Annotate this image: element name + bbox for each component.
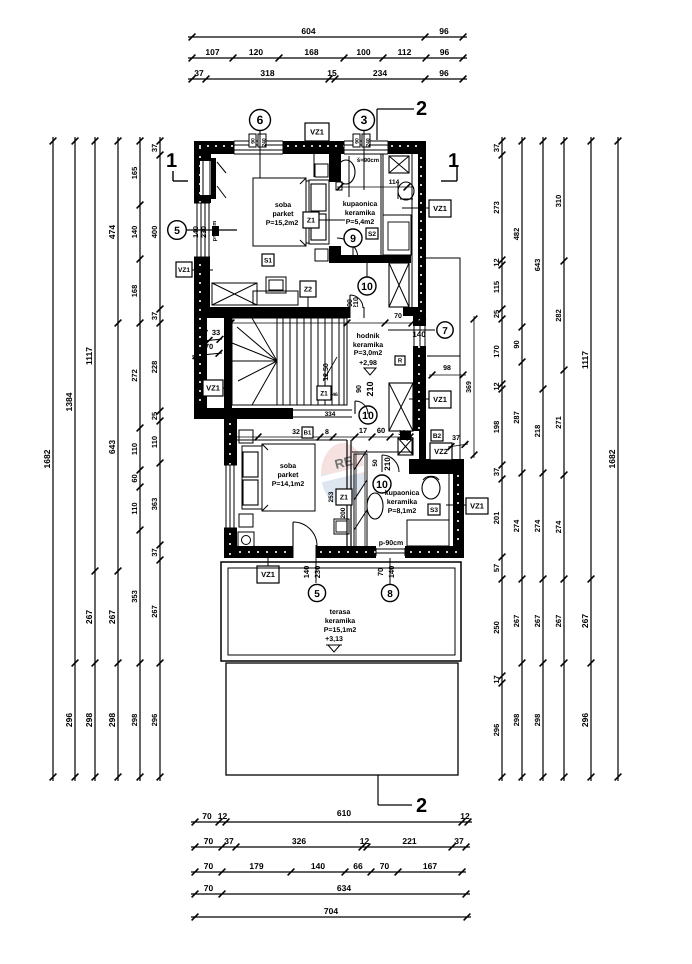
svg-text:282: 282	[554, 309, 563, 322]
top dimension row 1	[188, 36, 467, 38]
hodnik lower door arc	[354, 401, 356, 414]
right dim column 2	[521, 137, 523, 781]
watermark balloon	[320, 443, 366, 505]
label Z2	[300, 281, 316, 297]
nightstand lower a	[239, 430, 253, 443]
svg-text:228: 228	[150, 361, 159, 374]
svg-text:110: 110	[130, 443, 139, 455]
wall insulation dots	[199, 145, 201, 147]
svg-text:198: 198	[492, 421, 501, 434]
window top wall 2	[344, 141, 388, 154]
svg-text:96: 96	[439, 68, 449, 78]
svg-text:90: 90	[251, 138, 257, 144]
label Z1	[303, 212, 319, 228]
outer wall: top	[194, 141, 426, 154]
svg-text:37: 37	[150, 144, 159, 152]
outer wall: right lower block	[453, 474, 464, 546]
svg-text:25: 25	[150, 412, 159, 420]
sink lower	[367, 493, 383, 519]
level marker terrace	[328, 645, 340, 652]
wall: under upper room	[194, 307, 352, 318]
label S2	[366, 228, 378, 239]
svg-text:10: 10	[376, 479, 388, 491]
svg-text:8: 8	[325, 429, 329, 436]
right dim column 4	[563, 137, 565, 781]
circled 6	[250, 110, 271, 131]
svg-text:318: 318	[260, 68, 274, 78]
svg-text:VZ1: VZ1	[206, 384, 220, 393]
circled 5 left	[168, 221, 187, 240]
window marker w2	[353, 134, 360, 147]
svg-text:112: 112	[398, 47, 412, 57]
svg-text:643: 643	[533, 259, 542, 272]
wall: hodnik/bath corner	[419, 420, 426, 459]
svg-text:643: 643	[107, 440, 117, 454]
left dim column 5	[139, 137, 141, 781]
svg-text:120: 120	[249, 47, 263, 57]
svg-text:S2: S2	[368, 231, 376, 238]
svg-text:298: 298	[107, 713, 117, 727]
WC upper	[337, 160, 355, 184]
bed lower room	[262, 444, 315, 511]
window top wall 1	[234, 141, 283, 154]
svg-text:218: 218	[533, 425, 542, 438]
wall: under upper bathroom	[330, 255, 411, 263]
svg-text:474: 474	[107, 225, 117, 239]
svg-text:12,50: 12,50	[323, 363, 330, 381]
svg-text:50: 50	[372, 459, 379, 467]
svg-text:2: 2	[416, 98, 427, 120]
svg-text:98: 98	[443, 365, 451, 372]
dark box 36	[400, 431, 411, 440]
svg-text:298: 298	[512, 714, 521, 727]
shaft X below bathroom	[389, 263, 409, 307]
svg-text:298: 298	[533, 714, 542, 727]
svg-text:1682: 1682	[42, 449, 52, 468]
outer wall: left lower block	[224, 419, 237, 465]
label S3	[428, 504, 440, 515]
svg-text:200: 200	[340, 507, 347, 518]
svg-text:5: 5	[314, 589, 320, 600]
svg-text:P=15,1m2: P=15,1m2	[324, 627, 357, 634]
door gap bottom wall frame	[292, 546, 294, 558]
outer wall: bottom	[224, 546, 293, 558]
svg-text:VZ1: VZ1	[470, 502, 484, 511]
lower room top face	[237, 439, 347, 441]
circled 10 b	[359, 406, 377, 424]
svg-text:267: 267	[150, 605, 159, 618]
bottom dimension row 2	[191, 846, 470, 848]
svg-text:240: 240	[366, 138, 372, 147]
label R	[395, 356, 405, 365]
window marker w1	[249, 134, 256, 147]
svg-text:12: 12	[460, 811, 470, 821]
circled 8 bottom	[381, 584, 398, 601]
dim 114	[337, 186, 412, 188]
svg-text:1117: 1117	[580, 351, 590, 369]
svg-text:17: 17	[492, 675, 501, 683]
svg-text:610: 610	[337, 808, 351, 818]
svg-text:267: 267	[533, 615, 542, 628]
stair treads	[282, 318, 284, 405]
svg-text:37: 37	[194, 68, 204, 78]
svg-text:keramika: keramika	[387, 498, 417, 506]
svg-text:296: 296	[150, 714, 159, 727]
svg-text:R: R	[398, 358, 403, 365]
svg-text:37: 37	[150, 548, 159, 556]
svg-text:25: 25	[492, 310, 501, 318]
label B1	[302, 427, 313, 438]
interior dim line y437	[237, 436, 412, 438]
svg-text:179: 179	[249, 861, 263, 871]
svg-text:kupaonica: kupaonica	[343, 200, 378, 208]
svg-text:60: 60	[377, 426, 385, 435]
svg-text:12: 12	[218, 811, 228, 821]
small cabinet lower	[334, 519, 349, 534]
left dim column 6	[159, 137, 161, 781]
svg-text:46: 46	[332, 392, 338, 398]
svg-text:5: 5	[174, 225, 180, 237]
svg-text:37: 37	[492, 468, 501, 476]
svg-text:Z1: Z1	[307, 218, 315, 225]
svg-text:70: 70	[202, 811, 212, 821]
svg-text:Z1: Z1	[340, 495, 348, 502]
top dimension row 3	[188, 78, 467, 80]
nightstand lower b	[239, 514, 253, 527]
svg-text:B1: B1	[304, 430, 312, 437]
svg-text:272: 272	[130, 369, 139, 382]
bathroom door arc	[337, 258, 358, 260]
svg-text:9: 9	[350, 233, 356, 245]
svg-text:140: 140	[412, 330, 426, 339]
headboard + pillows lower	[242, 446, 262, 509]
window left wall upper	[194, 202, 210, 204]
svg-text:100: 100	[356, 47, 370, 57]
svg-text:P=8,1m2: P=8,1m2	[388, 508, 417, 515]
svg-text:57: 57	[492, 564, 501, 572]
svg-text:40: 40	[418, 315, 427, 324]
svg-text:310: 310	[554, 195, 563, 208]
circled 10 a	[358, 277, 376, 295]
nightstand bottom	[315, 249, 328, 261]
left dim column 2	[74, 137, 76, 781]
stair winders	[252, 318, 277, 361]
svg-text:15: 15	[327, 68, 337, 78]
svg-text:70: 70	[204, 861, 214, 871]
svg-text:12: 12	[492, 382, 501, 390]
svg-text:VZ1: VZ1	[310, 128, 324, 137]
svg-text:114: 114	[389, 179, 400, 186]
svg-text:37: 37	[452, 435, 460, 442]
dim 369 vertical	[473, 316, 475, 458]
bottom dimension row 1	[191, 821, 472, 823]
svg-text:37: 37	[492, 144, 501, 152]
svg-text:parket: parket	[272, 210, 294, 218]
svg-text:230: 230	[201, 226, 208, 238]
svg-text:P=14,1m2: P=14,1m2	[272, 481, 305, 488]
svg-text:1384: 1384	[64, 392, 74, 411]
left dim column 4	[117, 137, 119, 781]
svg-text:240: 240	[262, 138, 268, 147]
svg-text:369: 369	[466, 381, 473, 393]
terrace door leaf+arc	[292, 522, 294, 546]
svg-text:90: 90	[356, 385, 363, 393]
wall: lower soba/bath partition	[346, 440, 348, 546]
svg-text:P=3,0m2: P=3,0m2	[354, 350, 383, 357]
left dim column 1 (1682)	[52, 137, 54, 781]
svg-text:298: 298	[130, 714, 139, 727]
svg-text:70: 70	[394, 313, 402, 320]
svg-text:VZ1: VZ1	[178, 267, 190, 274]
outer wall: left/stairs bottom band	[194, 408, 293, 419]
svg-text:kupaonica: kupaonica	[385, 489, 420, 497]
label VZ1 right bath	[429, 200, 451, 217]
left dim column 3	[94, 137, 96, 781]
svg-text:300: 300	[286, 313, 298, 320]
right dim column 6 (1682)	[617, 137, 619, 781]
stairs inner wall left	[224, 313, 232, 408]
hodnik lower lines	[293, 409, 352, 411]
label S1	[262, 254, 274, 266]
svg-text:168: 168	[130, 285, 139, 298]
svg-text:keramika: keramika	[345, 209, 375, 217]
tub lower	[407, 520, 449, 546]
label Z1 stairs	[317, 386, 331, 400]
right dim column 1	[501, 137, 503, 781]
svg-text:107: 107	[205, 47, 219, 57]
svg-text:400: 400	[150, 226, 159, 239]
svg-text:140: 140	[193, 226, 200, 238]
svg-text:70: 70	[204, 836, 214, 846]
svg-text:B2: B2	[433, 433, 442, 440]
svg-text:210: 210	[365, 381, 375, 396]
svg-text:70: 70	[380, 861, 390, 871]
svg-text:1117: 1117	[84, 347, 94, 365]
balcony door right wall (hodnik)	[413, 326, 415, 346]
pocket door hatch	[354, 454, 367, 548]
shower upper bath	[383, 215, 411, 255]
svg-text:VZ1: VZ1	[261, 570, 275, 579]
bathroom divider line	[380, 154, 382, 255]
headboard + pillows	[309, 180, 329, 244]
svg-text:1: 1	[166, 150, 177, 172]
entrance door leaf upper-left	[211, 158, 216, 199]
svg-text:274: 274	[554, 520, 563, 533]
lower bath door arc	[381, 455, 383, 472]
svg-text:167: 167	[423, 861, 437, 871]
low cabinet	[253, 291, 298, 305]
svg-text:37: 37	[150, 312, 159, 320]
svg-text:3: 3	[361, 113, 368, 127]
dim 98 right	[429, 374, 466, 376]
svg-text:110: 110	[150, 436, 159, 448]
svg-text:S3: S3	[430, 507, 438, 514]
svg-text:267: 267	[554, 615, 563, 628]
svg-text:140: 140	[130, 226, 139, 239]
svg-text:250: 250	[492, 621, 501, 634]
label VZ1 below wall	[257, 566, 279, 583]
svg-text:234: 234	[373, 68, 387, 78]
right dim column 5	[590, 137, 592, 781]
svg-text:90: 90	[512, 340, 521, 348]
svg-text:634: 634	[337, 883, 351, 893]
vent shaft X upper bath	[389, 156, 409, 173]
svg-text:soba: soba	[280, 462, 296, 470]
svg-text:+2,98: +2,98	[359, 360, 377, 367]
bottom dimension row 5	[191, 916, 471, 918]
svg-text:267: 267	[107, 610, 117, 624]
circled 9	[344, 229, 362, 247]
svg-text:p-90cm: p-90cm	[379, 540, 404, 547]
wardrobe with X	[212, 283, 257, 305]
svg-text:keramika: keramika	[353, 341, 383, 349]
svg-text:296: 296	[492, 724, 501, 737]
svg-text:soba: soba	[275, 201, 291, 209]
svg-text:267: 267	[580, 614, 590, 628]
WC lower	[422, 477, 440, 499]
svg-text:298: 298	[84, 713, 94, 727]
svg-text:170: 170	[492, 345, 501, 358]
svg-text:604: 604	[301, 26, 315, 36]
svg-text:+3,13: +3,13	[325, 636, 343, 643]
svg-text:S1: S1	[264, 257, 272, 264]
svg-text:96: 96	[439, 26, 449, 36]
svg-text:353: 353	[130, 590, 139, 603]
circled 10 c	[373, 475, 391, 493]
svg-text:110: 110	[130, 502, 139, 514]
svg-text:33: 33	[212, 328, 220, 337]
svg-text:parket: parket	[277, 471, 299, 479]
label B2 + VZ2 right	[431, 430, 443, 441]
svg-text:165: 165	[130, 167, 139, 180]
svg-text:8: 8	[387, 589, 393, 600]
svg-text:Z2: Z2	[304, 287, 312, 294]
svg-text:7: 7	[442, 326, 448, 337]
label VZ1 left upper	[176, 262, 192, 277]
svg-text:363: 363	[150, 498, 159, 511]
bottom dimension row 4	[191, 893, 470, 895]
level marker hodnik	[364, 368, 376, 375]
label VZ1 top	[305, 123, 329, 141]
stairs outline	[232, 318, 347, 405]
svg-text:267: 267	[512, 615, 521, 628]
svg-text:221: 221	[402, 836, 416, 846]
bed upper room	[253, 178, 306, 246]
nightstand top	[315, 164, 328, 177]
svg-text:VZ1: VZ1	[433, 204, 447, 213]
washing machine	[238, 532, 254, 548]
terrace outline	[221, 562, 461, 661]
label VZ1 right lower	[466, 498, 488, 514]
svg-text:2: 2	[416, 795, 427, 817]
svg-text:201: 201	[492, 512, 501, 525]
svg-text:326: 326	[292, 836, 306, 846]
svg-text:VZ1: VZ1	[433, 395, 447, 404]
window bottom wall	[375, 548, 377, 556]
svg-text:17: 17	[359, 426, 367, 435]
label VZ1 left stairs	[203, 380, 223, 396]
svg-text:274: 274	[512, 519, 521, 532]
svg-text:140: 140	[311, 861, 325, 871]
balcony outline	[426, 258, 460, 460]
washbasin	[398, 182, 414, 200]
svg-text:96: 96	[440, 47, 450, 57]
svg-text:12: 12	[492, 258, 501, 266]
svg-text:š=90cm: š=90cm	[357, 157, 379, 164]
svg-text:115: 115	[492, 281, 501, 293]
shaft X mid	[389, 383, 413, 431]
svg-text:37: 37	[454, 836, 464, 846]
svg-text:VZ2: VZ2	[434, 447, 448, 456]
svg-text:274: 274	[533, 519, 542, 532]
wall: soba/kupaonica upper	[329, 154, 341, 182]
svg-text:66: 66	[353, 861, 363, 871]
circled 5 bottom	[308, 584, 325, 601]
svg-text:287: 287	[512, 411, 521, 424]
label Z1 lower	[336, 489, 352, 505]
bottom dimension row 3	[191, 871, 466, 873]
svg-text:168: 168	[304, 47, 318, 57]
svg-text:P=15,2m2: P=15,2m2	[266, 220, 299, 227]
hodnik door arc	[350, 307, 364, 318]
svg-text:6: 6	[257, 113, 264, 127]
svg-text:keramika: keramika	[325, 617, 355, 625]
lower plot rectangle	[226, 663, 458, 775]
interior dim line y323	[231, 322, 412, 324]
window left wall lower	[224, 465, 237, 528]
svg-text:253: 253	[328, 491, 335, 502]
svg-text:271: 271	[554, 416, 563, 429]
outer wall: right upper	[418, 154, 426, 316]
svg-text:60: 60	[130, 474, 139, 482]
circled 3	[354, 110, 375, 131]
svg-text:1682: 1682	[607, 449, 617, 468]
svg-text:70: 70	[204, 883, 214, 893]
shaft X small	[398, 438, 413, 455]
svg-text:10: 10	[361, 281, 373, 293]
svg-text:296: 296	[64, 713, 74, 727]
svg-text:210: 210	[383, 457, 392, 471]
svg-text:90: 90	[355, 138, 361, 144]
svg-text:terasa: terasa	[330, 609, 351, 616]
svg-text:hodnik: hodnik	[357, 332, 380, 340]
dresser	[266, 277, 286, 293]
svg-text:267: 267	[84, 610, 94, 624]
svg-text:32: 32	[292, 429, 300, 436]
top dimension row 2	[188, 57, 467, 59]
outer wall: right mid (hodnik)	[413, 316, 426, 326]
right dim column 3	[542, 137, 544, 781]
svg-text:704: 704	[324, 906, 338, 916]
svg-text:Z1: Z1	[320, 390, 328, 397]
svg-text:296: 296	[580, 713, 590, 727]
svg-text:12: 12	[360, 836, 370, 846]
svg-text:482: 482	[512, 228, 521, 241]
svg-text:273: 273	[492, 201, 501, 214]
outer wall: left upper	[194, 141, 211, 161]
svg-text:P=5,4m2: P=5,4m2	[346, 219, 375, 226]
label VZ1 right mid	[429, 391, 451, 408]
svg-text:37: 37	[224, 836, 234, 846]
circled 7	[437, 322, 453, 338]
svg-text:70: 70	[376, 568, 385, 576]
